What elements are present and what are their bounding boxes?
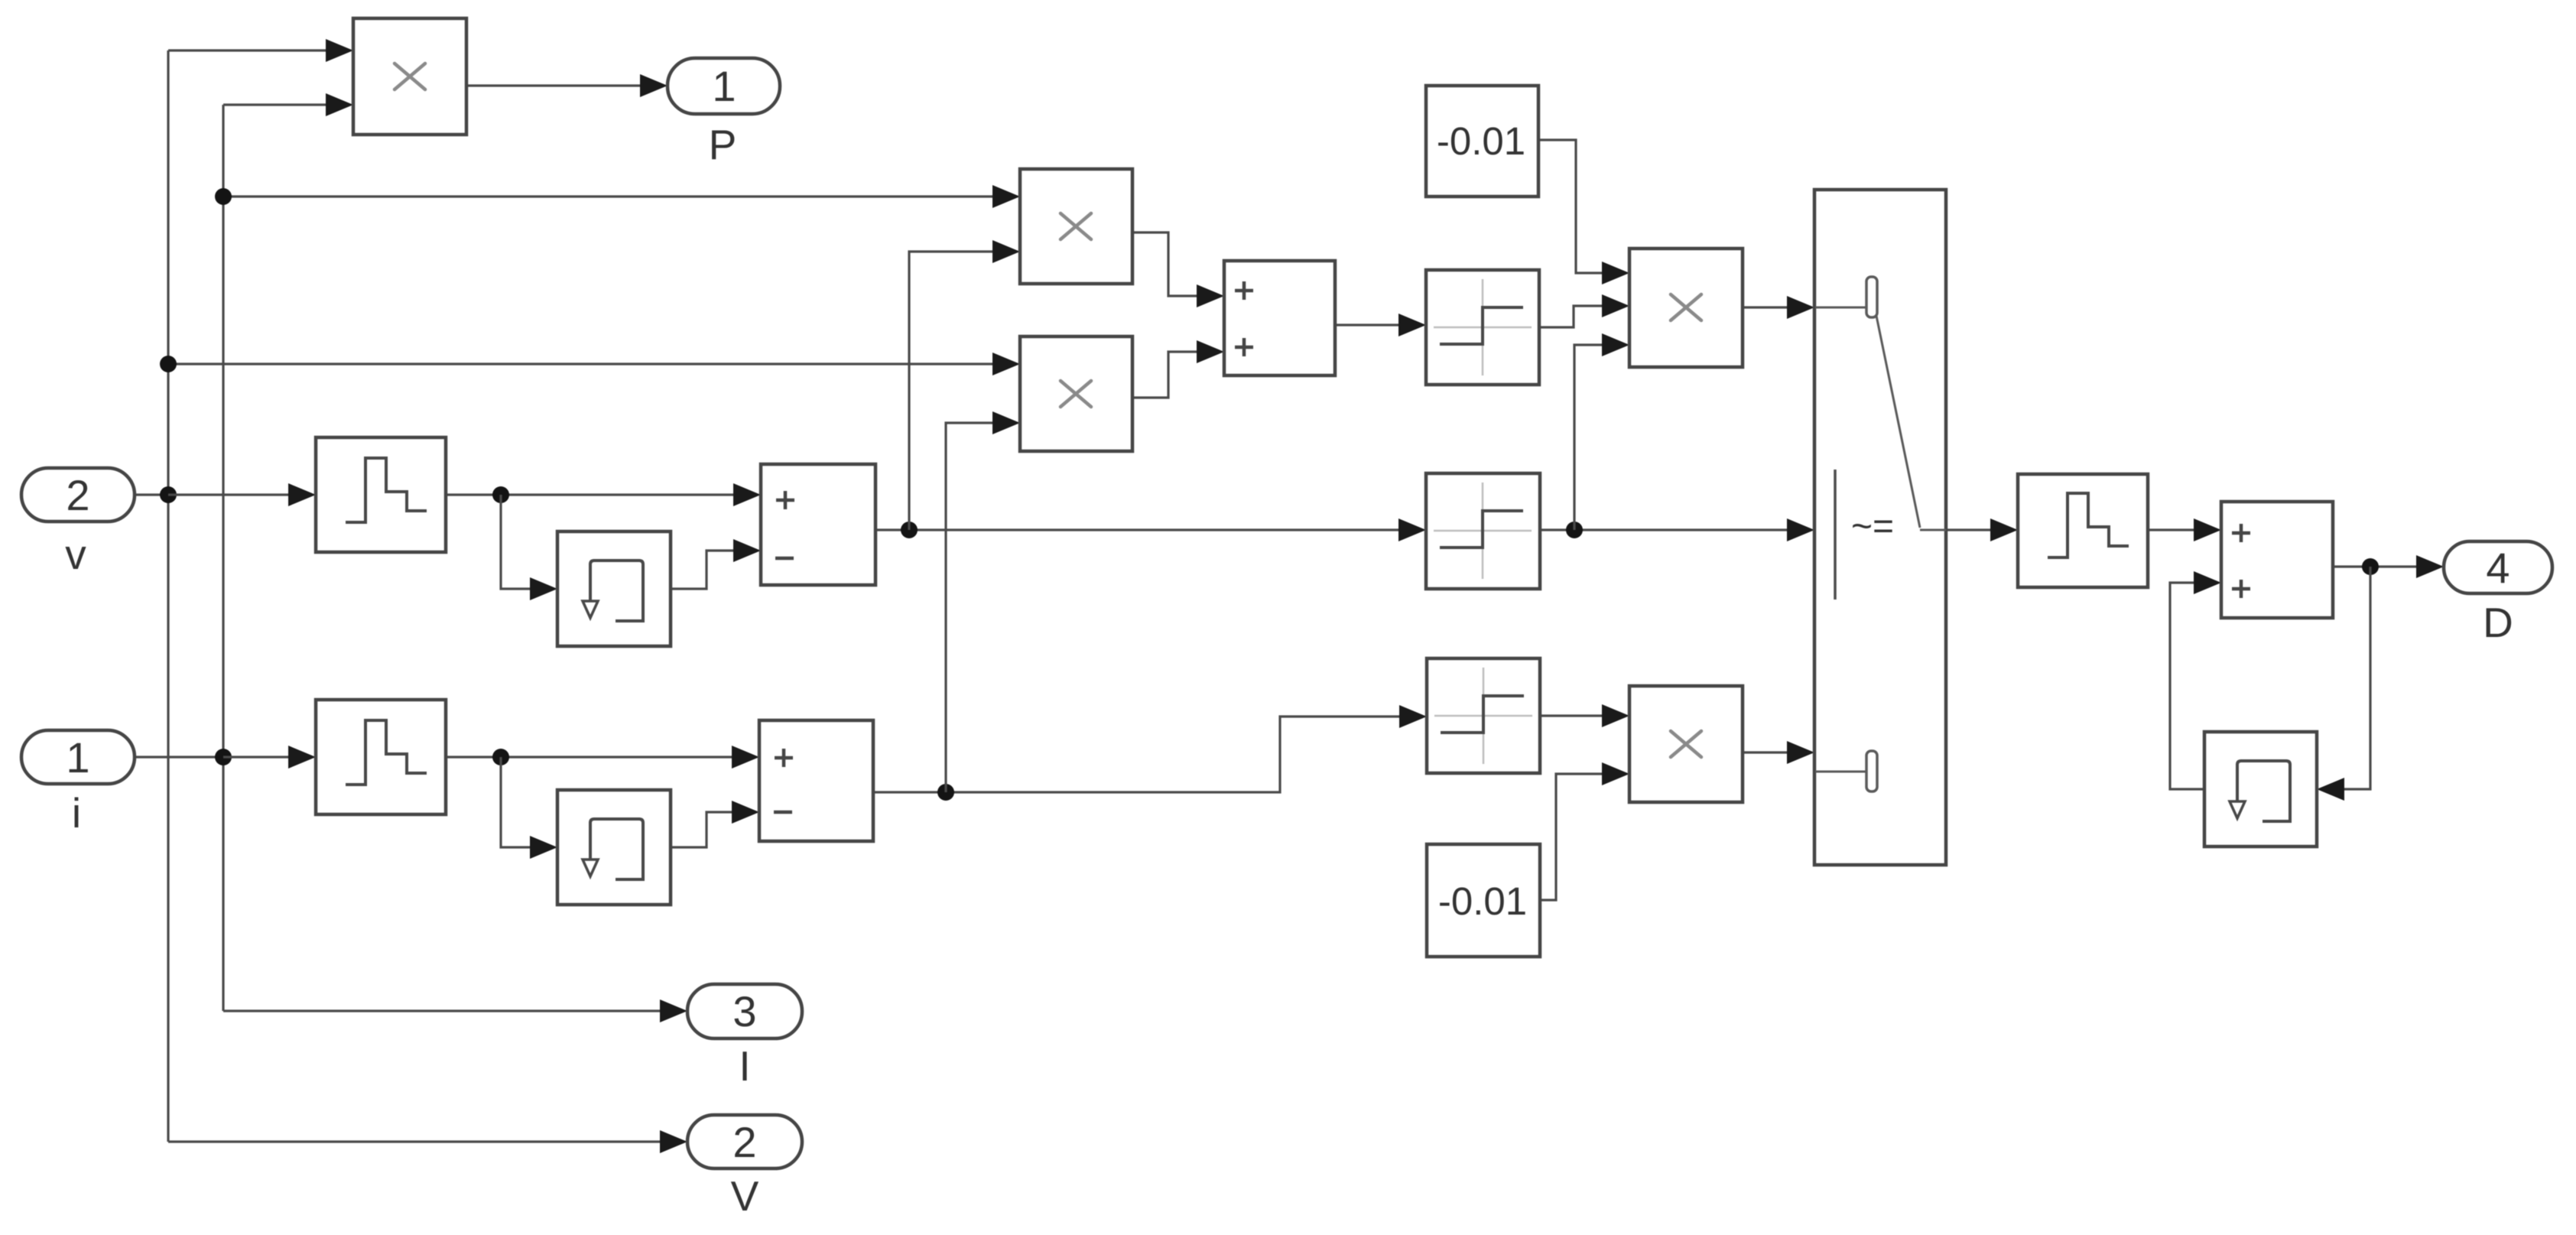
- wire sum right output to outport 4: [2333, 555, 2444, 578]
- wire sum mid output to sign top: [1335, 314, 1426, 336]
- memory 3: [2204, 732, 2317, 847]
- node i branch junction: [215, 188, 232, 205]
- svg-text:i: i: [72, 789, 81, 837]
- wire v bus to outport 2: [168, 1130, 687, 1153]
- constant -0.01 top: [1426, 86, 1538, 197]
- sum block 1 (v - v_old): [761, 464, 875, 585]
- wire v bus vertical from product input down to V outport row: [167, 50, 169, 1142]
- svg-text:3: 3: [733, 987, 756, 1035]
- wire v bus top corner to product P input 1: [168, 39, 353, 62]
- wire rate2 output to sum2 plus input: [446, 746, 759, 769]
- wire memory 3 output up to sum right input 2: [2170, 571, 2221, 789]
- label v: [65, 531, 86, 578]
- outport 3 oval: [687, 984, 802, 1038]
- label D: [2483, 599, 2513, 646]
- product block P (v times i): [353, 18, 466, 135]
- wire v to rate transition 1: [168, 483, 316, 506]
- label P: [709, 121, 737, 168]
- wire i bus to outport 3: [223, 999, 687, 1022]
- memory 1: [557, 531, 671, 646]
- wire sign top output to product X3 input 2: [1539, 294, 1629, 327]
- multiport switch: [1814, 190, 1946, 865]
- product X4: [1629, 686, 1743, 802]
- wire memory 1 output to sum1 minus input: [671, 539, 761, 589]
- product X1 (i * dV): [1020, 169, 1132, 284]
- wire rate3 output to sum right input 1: [2148, 518, 2221, 541]
- wire product X2 output to sum mid input 2: [1132, 340, 1224, 398]
- sign block top: [1426, 270, 1539, 385]
- wire switch output to rate transition 3: [1946, 518, 2018, 541]
- constant -0.01 bottom: [1427, 844, 1540, 957]
- node dI branch: [937, 784, 954, 801]
- wire i bus top corner to product P input 2: [223, 93, 353, 116]
- sum mid (+ +): [1224, 261, 1335, 375]
- node dV branch: [901, 522, 918, 538]
- wire i bus vertical: [222, 105, 224, 1011]
- product X2 (v * dI): [1020, 336, 1132, 451]
- wire rate1 output to sum1 plus input: [446, 483, 761, 506]
- wire i bus branch to product X1 input 1: [223, 185, 1020, 208]
- node sign mid output branch: [1566, 522, 1583, 538]
- wire constant -0.01 top to product X3 input 1: [1538, 140, 1629, 284]
- wire branch down to memory 1: [501, 495, 557, 600]
- outport 2 oval: [687, 1115, 802, 1168]
- svg-text:v: v: [65, 531, 86, 578]
- wire branch down to memory 2: [501, 757, 557, 859]
- svg-text:4: 4: [2486, 544, 2509, 592]
- label V: [731, 1172, 759, 1220]
- node v branch junction: [160, 356, 177, 372]
- sum right (+ +): [2221, 502, 2333, 618]
- wire v bus branch to product X2 input 1: [168, 353, 1020, 375]
- node v input junction: [160, 486, 177, 503]
- sign block mid: [1426, 473, 1540, 589]
- outport 4 oval: [2444, 541, 2552, 593]
- wire feedback down into memory 3 right side: [2317, 567, 2370, 801]
- wire i to rate transition 2: [223, 746, 316, 769]
- svg-text:1: 1: [66, 733, 89, 782]
- wire dI up to product X2 input 2: [946, 411, 1020, 792]
- wire sum2 output dI to sign bottom: [873, 705, 1427, 792]
- wire dV up to product X1 input 2: [909, 240, 1020, 530]
- svg-text:I: I: [739, 1042, 750, 1090]
- sum block 2 (i - i_old): [759, 720, 873, 841]
- rate transition 2: [316, 700, 446, 814]
- svg-text:D: D: [2483, 599, 2513, 646]
- outport 1 oval: [668, 58, 780, 114]
- wire branch up to product X3 input 3: [1574, 333, 1629, 530]
- label i: [72, 789, 81, 837]
- svg-text:2: 2: [733, 1118, 756, 1166]
- svg-text:V: V: [731, 1172, 759, 1220]
- svg-text:~=: ~=: [1851, 506, 1894, 547]
- sign block bottom: [1427, 658, 1540, 773]
- wire product X3 output to switch input 1: [1743, 296, 1814, 319]
- inport 2 oval v: [21, 468, 135, 522]
- svg-text:P: P: [709, 121, 737, 168]
- node rate1 output branch: [492, 486, 509, 503]
- wire product X4 output to switch input 3: [1743, 741, 1814, 764]
- node i input junction: [215, 749, 232, 765]
- wire inport v to bus: [135, 493, 168, 496]
- rate transition 1: [316, 437, 446, 552]
- svg-text:-0.01: -0.01: [1438, 879, 1527, 923]
- label I: [739, 1042, 750, 1090]
- svg-text:1: 1: [712, 62, 736, 110]
- product X3 (3 input): [1629, 249, 1743, 367]
- node rate2 output branch: [492, 749, 509, 765]
- svg-text:-0.01: -0.01: [1437, 119, 1525, 163]
- wire constant -0.01 bottom to product X4 input 2: [1540, 762, 1629, 900]
- svg-text:2: 2: [66, 471, 89, 519]
- wire product P output to outport 1: [466, 74, 668, 97]
- memory 2: [557, 790, 671, 905]
- wire product X1 output to sum mid input 1: [1132, 232, 1224, 307]
- node D output branch: [2362, 558, 2379, 575]
- wire sign bottom output to product X4 input 1: [1540, 704, 1629, 727]
- rate transition 3: [2018, 474, 2148, 587]
- wire sum1 output dV to sign mid: [875, 518, 1426, 541]
- wire memory 2 output to sum2 minus input: [671, 801, 759, 847]
- wire sign mid output to switch middle input: [1540, 518, 1814, 541]
- wire inport i to bus: [135, 756, 223, 758]
- inport 1 oval i: [21, 730, 135, 784]
